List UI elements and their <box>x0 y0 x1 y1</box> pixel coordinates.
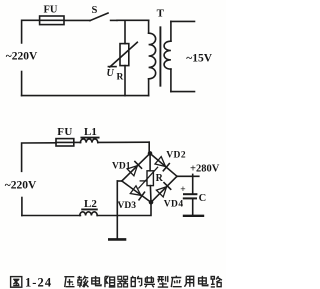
wire: bottom circuit left vertical upper stub and top wire start <box>22 143 56 172</box>
caption character 应 <box>171 276 182 287</box>
bridge edge top-right <box>150 153 177 176</box>
wire: varistor branch bottom <box>124 66 126 96</box>
svg-text:FU: FU <box>44 5 58 16</box>
caption character 电 (second) <box>199 276 208 286</box>
ground (left) <box>109 238 125 241</box>
capacitor C top plate <box>184 193 196 195</box>
varistor R (bridge) diagonal arrow with foot <box>139 167 158 188</box>
node dot (bridge top) <box>148 151 153 156</box>
svg-text:VD2: VD2 <box>166 151 186 161</box>
wire: capacitor top lead <box>192 174 194 193</box>
wire: left node down to ground <box>116 181 118 238</box>
svg-text:VD4: VD4 <box>164 200 184 210</box>
svg-text:C: C <box>199 193 207 204</box>
wire: bridge right node to output <box>177 175 199 177</box>
svg-text:~220V: ~220V <box>6 50 38 62</box>
bridge edge left-bottom <box>122 181 151 202</box>
caption character 的 <box>131 276 141 287</box>
wire: bottom circuit bottom wire to L2 <box>22 215 81 217</box>
ground (below capacitor) <box>184 215 203 217</box>
svg-text:L2: L2 <box>84 198 97 210</box>
wire: fuse to switch <box>64 19 90 21</box>
inductor L1 winding <box>80 139 97 143</box>
svg-text:U: U <box>107 68 115 79</box>
caption character 器 <box>118 276 128 287</box>
wire: capacitor bottom lead <box>192 199 194 214</box>
wire: varistor branch inside bridge (bottom lead) <box>149 186 152 203</box>
wire: bottom circuit left vertical lower stub <box>21 198 23 216</box>
svg-text:S: S <box>92 5 98 16</box>
fuse FU (bottom circuit) <box>56 139 81 146</box>
caption character 敏 <box>77 276 88 287</box>
wire: riser to bridge top node <box>148 142 150 153</box>
caption character 典 <box>144 276 155 287</box>
diode VD4 <box>156 183 170 197</box>
inductor L1 core bar <box>81 137 98 139</box>
wire: bridge left node stub <box>117 180 122 182</box>
wire: top circuit left vertical upper stub and top wire start <box>22 20 40 43</box>
svg-text:R: R <box>117 73 124 83</box>
caption character 型 <box>157 276 168 287</box>
caption character 路 <box>211 276 222 287</box>
svg-text:L1: L1 <box>84 126 97 138</box>
fuse FU (top circuit) <box>40 16 64 25</box>
diode VD1 <box>127 162 141 176</box>
wire: secondary top stub <box>171 20 195 22</box>
wire: top circuit left vertical lower stub <box>21 72 23 96</box>
svg-text:~220V: ~220V <box>5 179 37 191</box>
wire: top circuit bottom wire <box>22 95 149 97</box>
wire: varistor branch inside bridge (top lead) <box>149 153 151 170</box>
svg-text:~15V: ~15V <box>186 53 212 65</box>
capacitor C bottom plate <box>184 197 196 199</box>
wire: varistor branch top <box>124 20 126 43</box>
caption character 电 <box>92 276 101 286</box>
svg-text:VD1: VD1 <box>112 162 131 172</box>
transformer T core <box>159 27 161 85</box>
caption character 用 <box>184 276 193 287</box>
transformer T primary winding <box>149 20 156 95</box>
diode VD2 <box>155 157 169 171</box>
transformer T secondary winding <box>164 21 171 91</box>
inductor L2 core bar <box>82 208 97 210</box>
wire: secondary bottom stub <box>171 91 195 93</box>
bridge edge bottom-right <box>151 176 177 202</box>
svg-text:FU: FU <box>57 126 72 138</box>
caption figure number 图 glyph <box>11 277 22 288</box>
wire: L1 to bridge <box>98 141 149 143</box>
svg-text:VD3: VD3 <box>118 201 137 211</box>
svg-text:1-24: 1-24 <box>25 276 52 289</box>
diode VD3 <box>130 186 144 200</box>
caption character 阻 <box>105 277 115 288</box>
varistor R (top circuit) body <box>120 44 129 66</box>
svg-text:+: + <box>180 185 185 195</box>
caption character 压 <box>64 277 74 287</box>
bridge edge left-top <box>122 153 150 181</box>
switch S <box>90 13 117 21</box>
wire: L2 to bridge bottom riser <box>97 202 151 215</box>
varistor R (top circuit) diagonal arrow with foot <box>108 42 137 67</box>
svg-text:T: T <box>157 7 165 19</box>
svg-text:R: R <box>156 173 164 184</box>
svg-text:+280V: +280V <box>190 163 220 174</box>
inductor L2 winding <box>80 212 97 216</box>
wire: switch to transformer <box>117 19 149 21</box>
node dot (bridge bottom) <box>149 200 154 205</box>
varistor R (bridge) body <box>147 171 153 186</box>
